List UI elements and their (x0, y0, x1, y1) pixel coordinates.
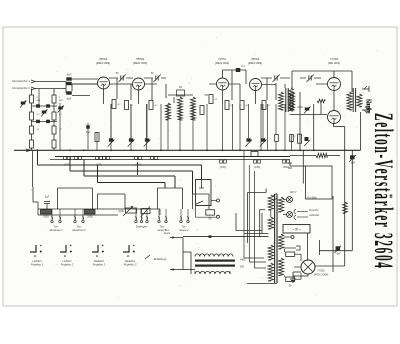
svg-text:8µF: 8µF (67, 73, 72, 77)
svg-text:8µF: 8µF (67, 97, 72, 101)
svg-text:Kontroll-: Kontroll- (309, 209, 318, 212)
svg-text:Fernsprecher 1: Fernsprecher 1 (12, 79, 30, 83)
svg-text:(REN 904): (REN 904) (133, 61, 147, 65)
svg-text:Projektor 2: Projektor 2 (61, 263, 74, 267)
svg-text:Projektor 1: Projektor 1 (31, 263, 44, 267)
svg-text:110 V: 110 V (290, 190, 297, 194)
svg-text:Lichtton: Lichtton (32, 259, 42, 263)
svg-text:(RE 604): (RE 604) (328, 61, 340, 65)
svg-text:abnehmer 2: abnehmer 2 (72, 229, 86, 232)
svg-text:Zelton-Verstärker: Zelton-Verstärker (369, 113, 398, 227)
svg-text:Erdleitung: Erdleitung (154, 257, 167, 261)
svg-text:1µF: 1µF (351, 162, 356, 165)
svg-text:MΩ: MΩ (59, 100, 63, 102)
svg-text:Saalregler: Saalregler (136, 226, 148, 229)
svg-text:100Ω: 100Ω (118, 211, 124, 213)
svg-text:(REN 904): (REN 904) (96, 61, 110, 65)
svg-text:Nadelton: Nadelton (125, 259, 136, 263)
svg-text:Lichtton: Lichtton (62, 259, 72, 263)
svg-text:500: 500 (240, 266, 245, 269)
svg-text:Projektor 1: Projektor 1 (93, 263, 106, 267)
svg-text:≈ W ≈: ≈ W ≈ (292, 228, 301, 232)
svg-text:32604: 32604 (369, 233, 398, 268)
svg-text:700: 700 (204, 94, 209, 97)
svg-text:(REN 904): (REN 904) (248, 61, 262, 65)
svg-text:(17Ω): (17Ω) (254, 166, 260, 169)
svg-text:voltmeter: voltmeter (309, 214, 319, 217)
svg-text:Fernsprecher 2: Fernsprecher 2 (12, 86, 30, 90)
svg-text:4462: 4462 (240, 259, 246, 262)
svg-text:lampe: lampe (164, 232, 171, 235)
svg-text:200Ω: 200Ω (42, 217, 49, 219)
svg-text:lampe 2: lampe 2 (180, 229, 190, 232)
svg-text:(RGN 2004): (RGN 2004) (314, 273, 329, 277)
svg-text:77301: 77301 (317, 269, 325, 273)
svg-text:1M: 1M (179, 87, 182, 89)
svg-text:(REN 904): (REN 904) (215, 61, 229, 65)
svg-text:200Ω: 200Ω (86, 217, 93, 219)
svg-text:Nadelton: Nadelton (94, 259, 105, 263)
svg-text:1µF: 1µF (45, 196, 50, 199)
svg-text:abnehmer 1: abnehmer 1 (49, 229, 63, 232)
svg-text:(17Ω): (17Ω) (220, 166, 226, 169)
svg-text:Projektor 2: Projektor 2 (124, 263, 137, 267)
svg-text:280Ω: 280Ω (282, 166, 289, 169)
svg-text:4µF: 4µF (336, 253, 341, 256)
svg-text:MΩ: MΩ (37, 100, 41, 102)
